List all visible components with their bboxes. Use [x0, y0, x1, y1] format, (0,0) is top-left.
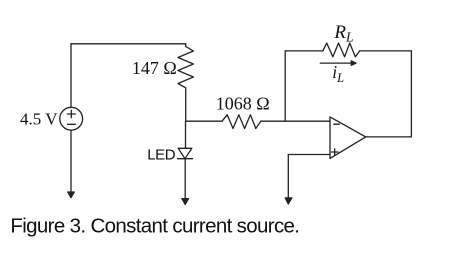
voltage source minus sign — [68, 123, 76, 125]
current arrow iL — [320, 62, 351, 64]
wire: right vertical to output — [410, 51, 412, 137]
wire: non-inverting input horizontal — [288, 154, 330, 156]
wire: top feedback right segment — [360, 50, 412, 52]
resistor R2 1068 ohm (horizontal zigzag) — [222, 115, 261, 129]
op-amp minus sign — [334, 123, 340, 125]
svg-text:RL: RL — [333, 22, 353, 45]
svg-text:LED: LED — [147, 147, 176, 164]
voltage source V1 circle — [60, 107, 83, 130]
ground arrow under LED — [182, 199, 189, 205]
ground arrow under source — [68, 192, 74, 198]
wire: LED cathode lead — [184, 159, 186, 199]
wire: top-left horizontal — [71, 43, 186, 45]
svg-text:Figure 3. Constant current sou: Figure 3. Constant current source. — [10, 215, 299, 238]
wire: R2 to inverting input — [261, 120, 330, 122]
svg-text:4.5 V: 4.5 V — [20, 109, 58, 128]
wire: source bottom lead — [70, 130, 72, 192]
svg-text:147 Ω: 147 Ω — [132, 58, 177, 78]
op-amp plus sign — [332, 149, 339, 155]
wire: top feedback left segment — [285, 50, 323, 52]
ground arrow under non-inverting input — [285, 198, 292, 204]
resistor RL (horizontal zigzag) — [323, 43, 360, 57]
wire: horizontal to op-amp with resistor R2 — [186, 120, 222, 122]
wire: source top to top-left corner — [70, 44, 72, 108]
op-amp U1 triangle — [330, 117, 366, 158]
resistor R1 147 ohm (vertical zigzag) — [178, 44, 193, 121]
wire: op-amp output — [366, 136, 412, 138]
svg-text:1068 Ω: 1068 Ω — [216, 93, 270, 113]
wire: feedback vertical riser — [284, 51, 286, 121]
svg-text:iL: iL — [332, 62, 344, 85]
wire: LED anode lead — [185, 121, 187, 148]
LED D1 (triangle + cathode bar) — [178, 148, 193, 158]
wire: non-inverting ground lead — [287, 155, 289, 199]
voltage source plus sign — [67, 110, 75, 117]
